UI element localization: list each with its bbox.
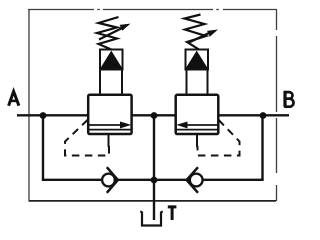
spring of V1 (97, 17, 119, 50)
relief valve V2 neck (187, 70, 208, 95)
wire: A port line (17, 114, 90, 116)
wire: A branch down (42, 115, 44, 180)
check valve CV1 (102, 167, 118, 193)
port A label (9, 91, 19, 105)
relief valve V2 pilot poppet box (185, 50, 208, 70)
spring of V2 (185, 15, 207, 50)
tank symbol at T (140, 212, 163, 226)
junction node at A (40, 112, 47, 119)
wire: center drain line to tank (153, 115, 155, 220)
junction node center (151, 112, 158, 119)
enclosure bottom border (29, 200, 277, 202)
wire: line between valves (131, 114, 177, 116)
pilot line (dashed) of V1 (65, 120, 109, 156)
enclosure top border (chain line) (28, 9, 277, 11)
wire: check line left (42, 179, 102, 181)
relief valve V1 pilot poppet box (100, 50, 123, 70)
port B label (284, 91, 293, 107)
wire: B branch down (261, 115, 263, 180)
relief valve V1 body (88, 95, 131, 134)
enclosure right border (dashed) (276, 10, 278, 201)
enclosure left border (28, 10, 30, 201)
check valve CV2 (187, 167, 203, 193)
adjustment arrow of V1 (99, 24, 131, 40)
pilot stub under V2 (196, 134, 198, 147)
port T label (168, 205, 177, 220)
wire: check line middle (118, 179, 189, 181)
pilot line (dashed) of V2 (198, 120, 240, 156)
pilot stub under V1 (108, 134, 110, 147)
wire: B port line (218, 114, 290, 116)
relief valve V1 neck (100, 70, 122, 95)
adjustment arrow of V2 (188, 30, 218, 44)
wire: check line right (203, 179, 264, 181)
relief valve V2 body (176, 95, 219, 134)
junction node drain (151, 177, 158, 184)
junction node at B (260, 112, 267, 119)
